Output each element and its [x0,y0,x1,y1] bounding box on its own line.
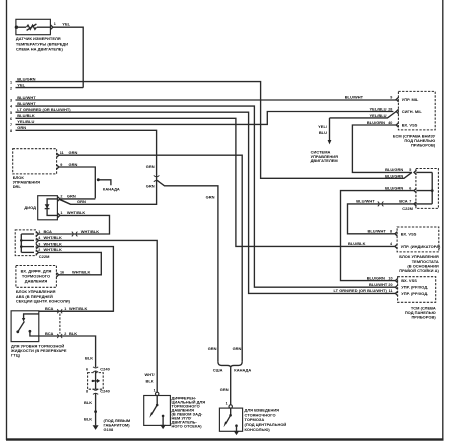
svg-text:WHT/BLK: WHT/BLK [67,210,85,215]
wire BLU/GRN ECM pin 40 to C22M pin 5 [352,125,412,172]
svg-text:BLU/GRN: BLU/GRN [17,76,35,81]
svg-text:9: 9 [390,95,392,99]
wire 6 BLU/BLK to cruise pin 4 [16,118,395,246]
C22M pin 3 bracket [36,244,38,248]
wire YEL/BLU branch to engine management [330,112,397,118]
ABS control unit (dashed box) [16,266,57,288]
TCM pin 20 bracket [395,285,397,289]
ECM (dashed box) [398,91,435,129]
svg-text:2: 2 [60,195,62,199]
svg-text:BLU/WHT: BLU/WHT [17,95,36,100]
switch pin1 internal contact [24,314,39,319]
svg-text:9: 9 [60,163,62,167]
svg-text:США: США [213,367,223,372]
svg-text:ВСА: ВСА [399,199,407,204]
C22M pin 1 bracket [36,232,38,236]
wire BLK to ground [95,393,97,425]
svg-text:WHT/BLK: WHT/BLK [72,270,90,275]
svg-text:GRN: GRN [220,387,229,392]
svg-text:2: 2 [38,248,40,252]
CANADA annotation pointer [97,178,100,181]
svg-text:11: 11 [389,289,393,293]
svg-text:YEL/BLU: YEL/BLU [370,106,387,111]
junction J1 [94,410,97,413]
connector direction marker [92,380,94,382]
svg-text:ПРИБОРОВ): ПРИБОРОВ) [411,314,436,319]
svg-text:ГТЦ): ГТЦ) [11,352,21,357]
svg-text:BLU/WHT: BLU/WHT [368,229,387,234]
inline connector on GRN wire 8 [154,175,160,181]
C22M pin 6 bracket [414,188,416,192]
DRL pin 9 [56,165,58,169]
DRL pin 11 [56,153,58,157]
svg-text:КАНАДА: КАНАДА [234,367,251,372]
TCM (dashed box) [398,277,436,303]
svg-text:YEL: YEL [62,22,70,27]
svg-text:DRL: DRL [13,184,22,189]
fluid switch row 2 BLK wire [39,336,96,367]
C22M pin 2 bracket [36,250,38,254]
ABS pin 16 bracket [56,273,58,277]
svg-text:6: 6 [10,117,12,121]
wire YEL from sensor [53,27,83,87]
svg-text:1: 1 [10,80,12,84]
wire BLU/GRN pin 6 to TCM pin 10 [341,191,415,281]
svg-text:ПРИБОРОВ): ПРИБОРОВ) [411,142,436,147]
svg-text:ДВИГАТЕЛЕМ: ДВИГАТЕЛЕМ [311,158,339,163]
svg-text:6: 6 [409,186,411,190]
park brake switch ring terminal [229,405,232,408]
svg-text:LT GRN/RED (OR BLU/WHT): LT GRN/RED (OR BLU/WHT) [17,107,71,112]
svg-text:WHT/: WHT/ [145,372,156,377]
svg-text:11: 11 [60,151,64,155]
C22M right internal bus [431,172,433,204]
svg-text:C22M: C22M [402,206,413,211]
wire GRN diode pin2 diagonal to USA branch [60,200,71,205]
dashed link between switch connector pins [59,314,61,334]
svg-text:BLU/GRN: BLU/GRN [385,173,403,178]
connector C22M (right, dashed) [416,169,439,209]
frame right border [442,0,444,440]
svg-text:BLU/WHT: BLU/WHT [369,282,388,287]
diode symbol [45,204,50,208]
fluid switch row 1 connector [39,310,114,312]
junction dot row4 bus [20,239,23,242]
diode pin 1 [58,213,60,217]
ground G108 [93,425,99,430]
svg-text:2: 2 [10,86,12,90]
wire BLU/WHT pin 7 to cruise pin 8 [348,204,415,234]
svg-text:ВХ. VSS: ВХ. VSS [402,123,418,128]
frame left border [6,0,8,440]
svg-text:УПР. MIL: УПР. MIL [402,97,419,102]
svg-text:1: 1 [64,307,66,311]
svg-text:BLK: BLK [146,379,154,384]
svg-text:G108: G108 [104,427,115,432]
svg-text:НОГО ОТСЕКА): НОГО ОТСЕКА) [172,424,203,429]
svg-text:3: 3 [10,99,12,103]
svg-text:СЛЕВА НА ДВИГАТЕЛЕ): СЛЕВА НА ДВИГАТЕЛЕ) [16,47,64,52]
svg-text:YEL/: YEL/ [318,124,328,129]
svg-text:C240: C240 [100,389,110,394]
svg-text:ВСА: ВСА [45,331,53,336]
junction dot on bus [431,189,434,192]
svg-text:GRN: GRN [146,164,155,169]
wire WHT/BLK row 4 to diff pressure switch [38,240,157,392]
svg-text:GRN: GRN [146,184,155,189]
svg-text:C22M: C22M [39,254,50,259]
svg-text:WHT/BLK: WHT/BLK [44,235,62,240]
svg-text:YEL: YEL [17,82,25,87]
svg-text:WHT/BLK: WHT/BLK [44,241,62,246]
wire 3 BLU/WHT to ECM pin 9 [16,99,397,101]
wire GRN DRL pin 11 to CANADA park brake [59,155,242,362]
ECM pin 9 bracket [396,97,398,101]
engine management arrow [329,118,331,141]
svg-text:GRN: GRN [67,194,76,199]
svg-text:BLK: BLK [85,356,93,361]
svg-text:6: 6 [86,368,88,372]
brake fluid level switch box [11,311,39,342]
frame bottom border [6,438,444,440]
svg-text:C240: C240 [100,367,110,372]
svg-text:BLU/BLK: BLU/BLK [348,241,366,246]
svg-text:BLU/GRN: BLU/GRN [385,167,403,172]
cruise pin 8 bracket [395,232,397,236]
svg-text:ДИОД: ДИОД [24,205,36,210]
svg-text:GRN: GRN [77,199,86,204]
svg-text:УПР. (РР/ХОД.: УПР. (РР/ХОД. [401,291,428,296]
wire GRN DRL pin 9 down to diode node [59,167,96,198]
sensor U1 temperature gauge sending unit [15,19,56,34]
svg-text:1: 1 [60,211,62,215]
svg-text:GRN: GRN [206,194,215,199]
wire between C240 halves [95,371,97,389]
wire 8 GRN [16,130,157,204]
svg-text:BLU/GRN: BLU/GRN [367,120,385,125]
svg-text:GRN: GRN [69,150,78,155]
parking brake switch box [219,408,242,431]
svg-text:BLK: BLK [84,400,92,405]
svg-text:40: 40 [388,121,392,125]
svg-text:YEL/BLU: YEL/BLU [370,113,387,118]
svg-text:WHT/BLK: WHT/BLK [81,229,99,234]
svg-text:WHT/BLK: WHT/BLK [69,306,87,311]
diode pin 2 [58,197,60,201]
inline connector row 1 [72,232,78,237]
cruise pin 4 bracket [395,244,397,248]
svg-text:BLU: BLU [319,130,327,135]
svg-text:ВСА: ВСА [45,306,53,311]
svg-text:BLU/BLK: BLU/BLK [17,113,35,118]
svg-text:BLU/WHT: BLU/WHT [17,101,36,106]
svg-text:ВСА: ВСА [44,229,52,234]
wire 7 YEL/BLU to ECM pin 28 [16,112,394,125]
svg-text:BLK: BLK [84,417,92,422]
C22M pin 4 bracket [36,238,38,242]
C22M pin 5 bracket [414,170,416,174]
svg-text:2: 2 [64,332,66,336]
svg-text:GRN: GRN [233,346,242,351]
switch lever [16,330,19,333]
svg-text:7: 7 [10,123,12,127]
TCM pin 11 bracket [395,291,397,295]
thermistor element [27,25,37,29]
wire 4 BLU/WHT to TCM pin 20 [16,106,396,287]
wire GRN branch to USA [157,180,218,362]
switch second contact to pin2 [29,330,32,333]
svg-text:1: 1 [154,389,156,393]
C22M internal bus [20,234,22,252]
svg-text:КОНСОЛЬЮ): КОНСОЛЬЮ) [245,427,271,432]
ECM pin 28 bracket [396,109,398,113]
wire WHT/BLK row 3 to fluid level switch [38,247,113,312]
svg-text:BLU/GRN: BLU/GRN [385,185,403,190]
svg-text:8: 8 [10,129,12,133]
svg-text:BLU/WHT: BLU/WHT [345,94,364,99]
svg-text:СИГН. MIL: СИГН. MIL [402,109,423,114]
svg-text:СЕКЦИИ ЦЕНТР. КОНСОЛИ): СЕКЦИИ ЦЕНТР. КОНСОЛИ) [16,298,71,303]
svg-text:ДАВЛЕНИЯ: ДАВЛЕНИЯ [25,278,48,283]
connector C22M (left, dashed) [15,230,36,256]
diode D1 box [38,196,58,220]
svg-text:LT GRN/RED (OR BLU/WHT): LT GRN/RED (OR BLU/WHT) [334,288,388,293]
junction dot row3 bus [20,245,23,248]
svg-text:1: 1 [38,230,40,234]
svg-text:УПР. (РР/ХОД.: УПР. (РР/ХОД. [401,285,428,290]
diff pressure switch ring terminal [156,392,159,395]
svg-text:8: 8 [390,230,392,234]
svg-text:16: 16 [60,271,64,275]
C240 lower pin pair [93,389,98,394]
pin 1 bracket [51,25,53,29]
svg-text:WHT/BLK: WHT/BLK [44,247,62,252]
C240 dashed detail box [88,373,104,390]
svg-text:YEL/BLU: YEL/BLU [17,119,34,124]
svg-text:ВХ. VSS: ВХ. VSS [401,278,417,283]
svg-text:ВХ. VSS: ВХ. VSS [401,231,417,236]
wire WHT/BLK row 2 to ABS pin 16 [38,252,101,274]
wire GRN diode pin2 to Canada node [60,198,96,200]
svg-text:3: 3 [38,242,40,246]
wire 1 BLU/GRN [16,82,412,179]
svg-text:1: 1 [54,22,56,26]
wire 2 YEL [16,87,84,89]
svg-text:20: 20 [388,283,392,287]
svg-text:5: 5 [409,168,411,172]
inline connector on pin 7 wire [378,202,384,207]
wire WHT/BLK diode pin1 down to connector row 1 [38,215,109,234]
svg-text:GRN: GRN [17,125,26,130]
TCM pin 10 bracket [395,278,397,282]
svg-text:7: 7 [409,200,411,204]
C22M pin 7 bracket [414,202,416,206]
svg-text:10: 10 [388,276,392,280]
svg-text:BLU/WHT: BLU/WHT [356,199,375,204]
ECM pin 40 bracket [396,123,398,127]
svg-text:5: 5 [10,111,12,115]
DRL control unit (dashed box) [13,149,57,174]
C240 upper pin pair [93,367,98,372]
wire 5 LT GRN/RED to TCM pin 11 [16,112,396,293]
svg-text:GRN: GRN [69,162,78,167]
cruise control unit (dashed box) [397,227,439,252]
svg-text:КАНАДА: КАНАДА [103,187,120,192]
differential pressure switch box [144,396,171,426]
svg-text:BLK: BLK [69,331,77,336]
wire GRN to park brake switch [230,368,232,405]
svg-text:8: 8 [86,390,88,394]
svg-text:28: 28 [388,107,392,111]
svg-text:1: 1 [226,401,228,405]
diode internal path [47,199,57,216]
svg-text:GRN: GRN [208,346,217,351]
svg-text:ПРАВОЙ СТОЙКИ А): ПРАВОЙ СТОЙКИ А) [399,268,439,273]
svg-text:УПР. (ИНДИКАТОРА): УПР. (ИНДИКАТОРА) [401,244,441,249]
svg-text:BLU/GRN: BLU/GRN [367,275,385,280]
